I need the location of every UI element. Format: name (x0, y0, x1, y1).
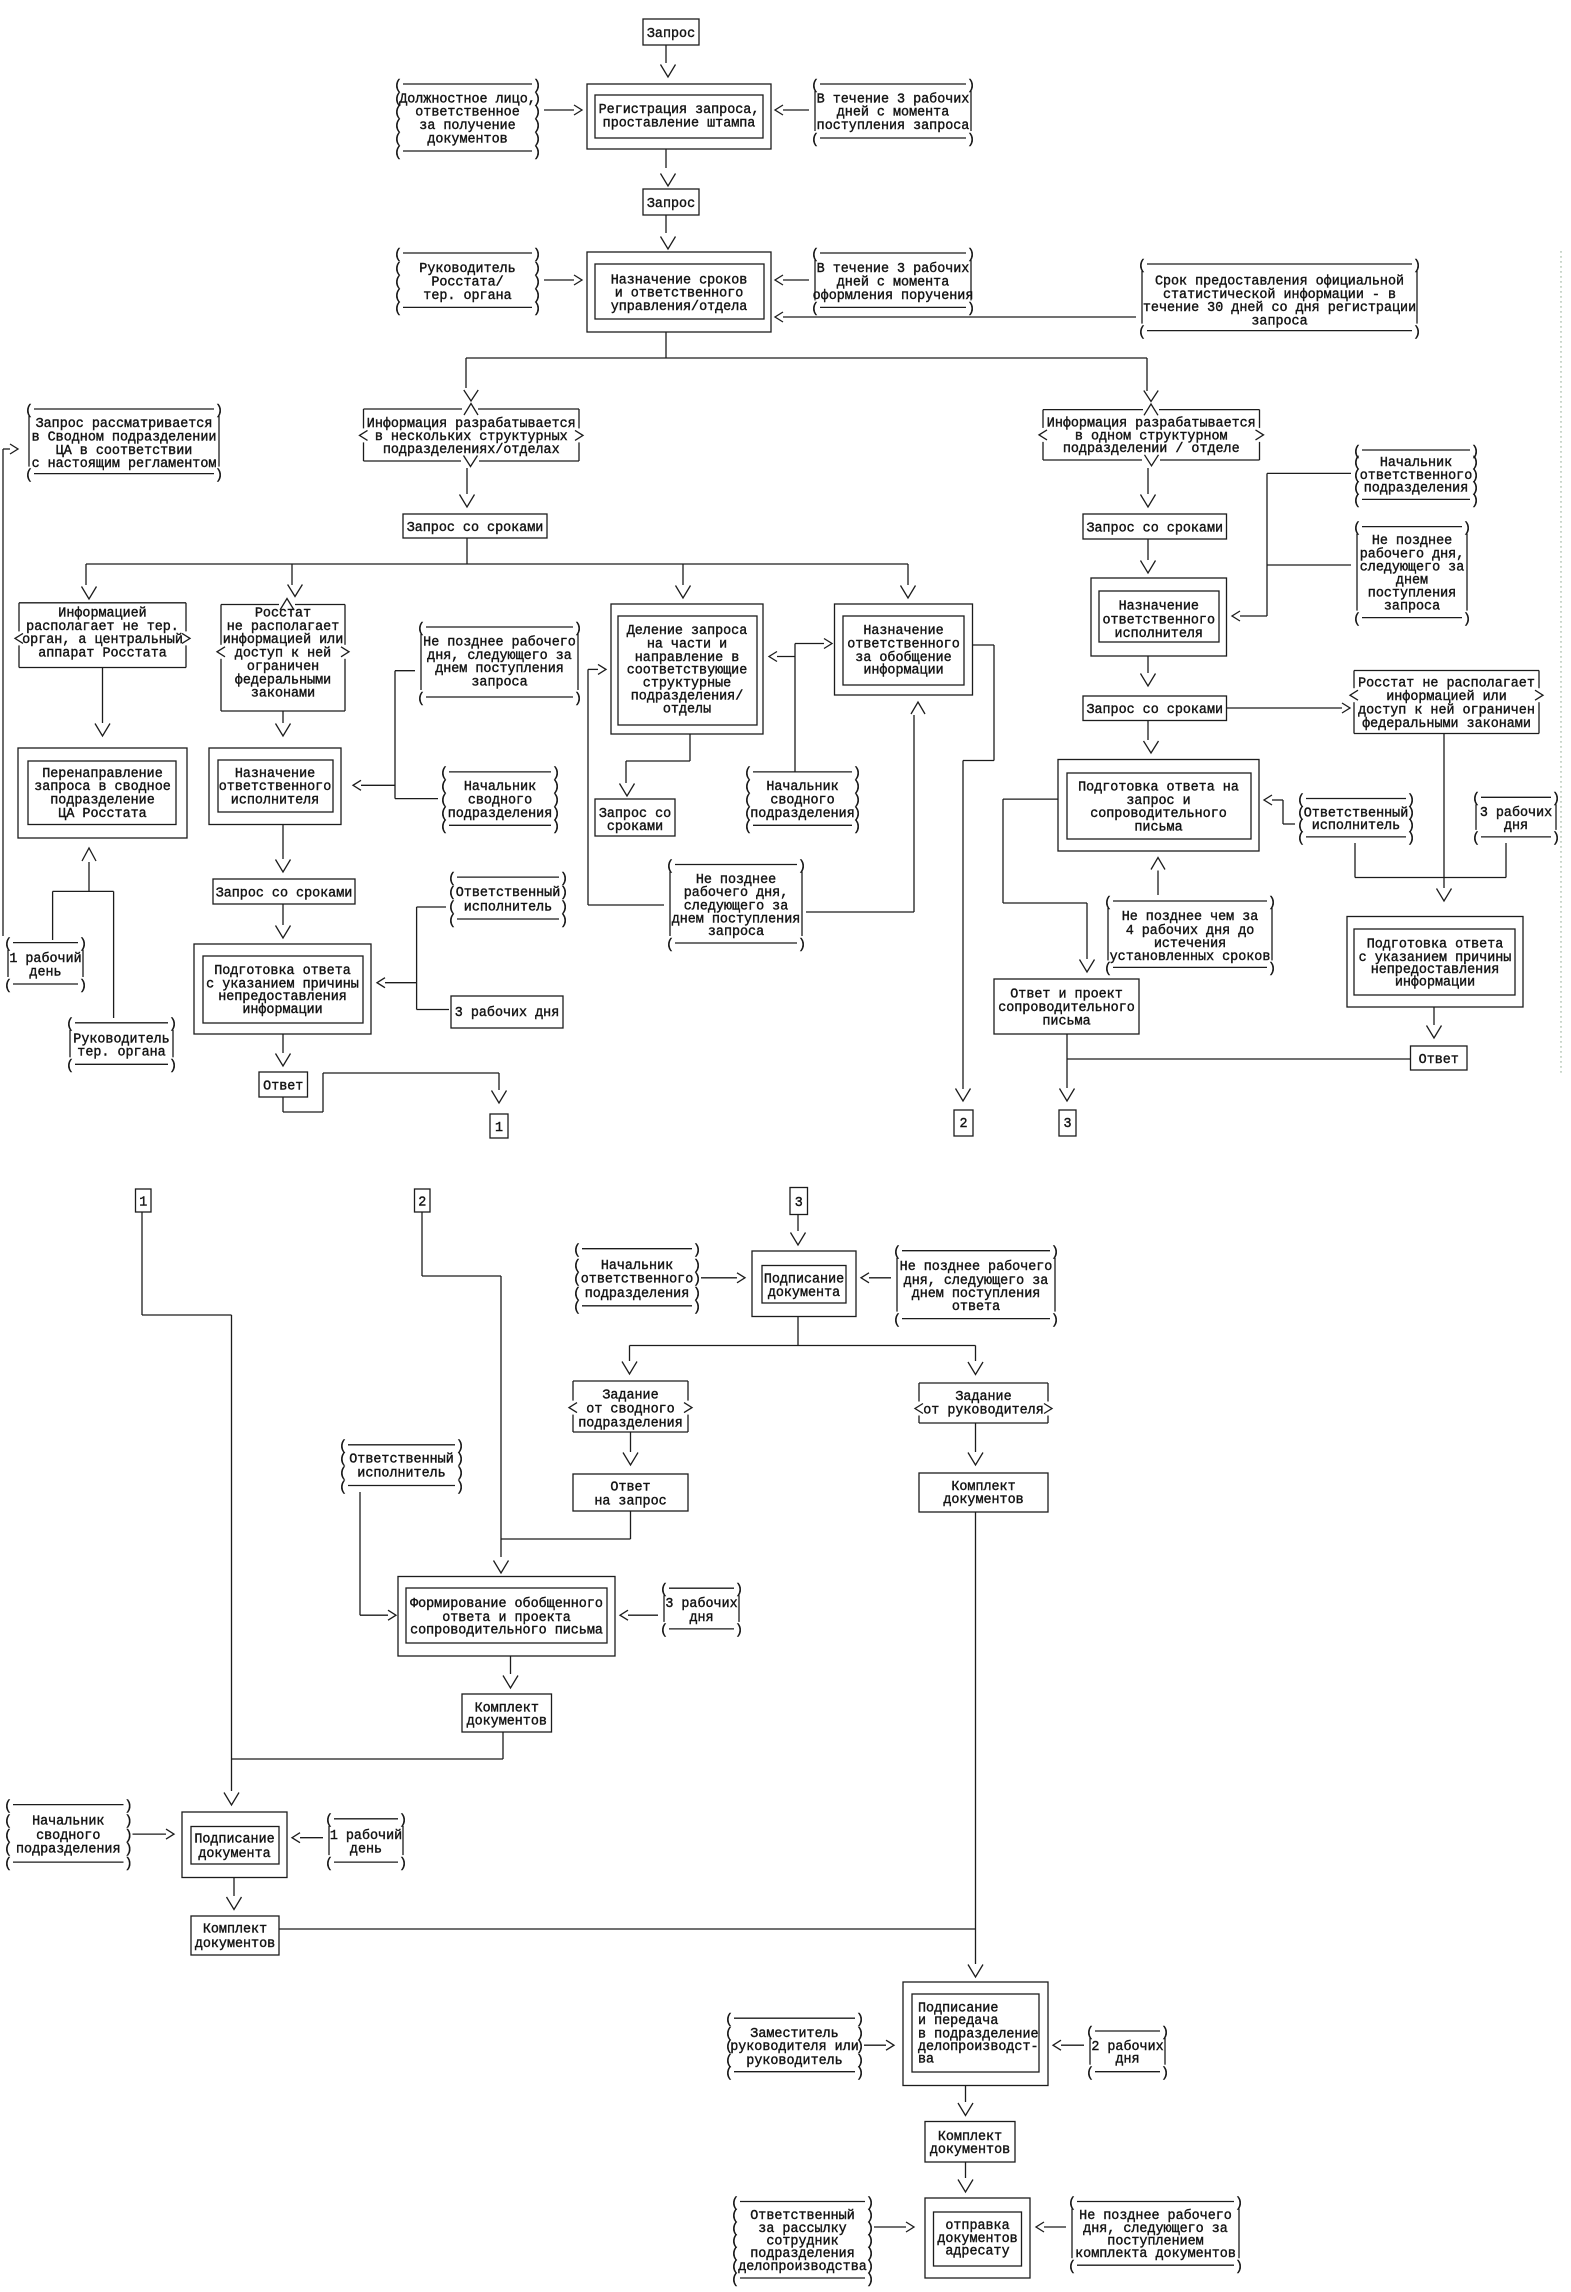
svg-text:исполнитель: исполнитель (464, 901, 552, 916)
svg-text:(: ( (1068, 2260, 1076, 2275)
svg-text:проставление штампа: проставление штампа (603, 117, 756, 132)
svg-text:(: ( (573, 1259, 581, 1274)
wire arrow Информация в одном -> Запрос со сроками (1141, 455, 1159, 507)
svg-text:документов: документов (195, 1937, 275, 1952)
condition Росстат не располагает информацией или доступ к ней ограничен (217, 605, 349, 712)
svg-text:оформления поручения: оформления поручения (813, 289, 974, 304)
svg-text:(: ( (339, 1480, 347, 1495)
node Запрос (second document box) (643, 189, 699, 215)
wire arrow Должностное лицо -> Регистрация (544, 105, 582, 115)
svg-text:): ) (560, 886, 568, 901)
svg-text:дня: дня (689, 1611, 713, 1626)
svg-text:подразделения: подразделения (16, 1843, 120, 1858)
svg-text:управления/отдела: управления/отдела (611, 300, 748, 315)
svg-text:исполнитель: исполнитель (1312, 819, 1400, 834)
connector 2 (off-page, section 1) (954, 1110, 973, 1136)
wire riser to comment Не позднее (center bottom) (588, 904, 664, 906)
svg-text:(: ( (4, 1829, 12, 1844)
svg-text:(: ( (725, 2013, 733, 2028)
node Запрос (top document box) (643, 19, 699, 45)
svg-text:(: ( (1353, 494, 1361, 509)
svg-text:(: ( (573, 1287, 581, 1302)
wire Комплект документов -> Подписание и передача (long riser) (975, 1512, 977, 1964)
wire arrow Запрос со сроками -> Назначение отв. исполнителя (1141, 539, 1156, 573)
svg-text:): ) (735, 1624, 743, 1639)
svg-text:Запрос со сроками: Запрос со сроками (216, 886, 353, 901)
svg-text:(: ( (1086, 2067, 1094, 2082)
comment Не позднее рабочего дня, следующего за поступлением комплекта документов (1068, 2196, 1243, 2275)
svg-text:): ) (456, 1480, 464, 1495)
wire Ответ на запрос -> объединение с 2 (501, 1511, 631, 1539)
svg-text:федеральными законами: федеральными законами (1362, 717, 1531, 732)
wire arrow Запрос со сроками 2 -> Подготовка ответа на запрос (1144, 721, 1159, 754)
svg-text:дня: дня (1115, 2053, 1139, 2068)
svg-text:(: ( (660, 1624, 668, 1639)
wire Назначение за обобщение -> 2 (956, 645, 995, 1101)
process Подготовка ответа с указанием причины непредоставления информации (left) (194, 944, 371, 1034)
svg-text:): ) (1407, 832, 1415, 847)
svg-text:3 рабочих дня: 3 рабочих дня (455, 1006, 559, 1021)
wire arrow Запрос со сроками -> Росстат не располагает (right) (1227, 703, 1351, 713)
wire up arrow into Перенаправление (53, 848, 114, 1018)
svg-text:запроса: запроса (1251, 314, 1307, 329)
svg-text:(: ( (573, 1244, 581, 1259)
wire arrow Срок предоставления -> Назначение сроков (775, 312, 1136, 322)
svg-text:): ) (693, 1287, 701, 1302)
svg-text:): ) (853, 820, 861, 835)
wire arrow out of Информация в одном (X motif) (1144, 391, 1158, 416)
svg-text:(: ( (4, 1799, 12, 1814)
process Назначение ответственного исполнителя (left) (209, 748, 341, 825)
comment 3 рабочих дня (right) (1472, 792, 1560, 847)
svg-text:): ) (856, 2013, 864, 2028)
svg-text:информации: информации (242, 1003, 322, 1018)
svg-text:Запрос: Запрос (647, 197, 695, 212)
svg-text:2: 2 (418, 1195, 426, 1210)
svg-text:ва: ва (918, 2053, 934, 2068)
wire arrow Назначение отв. исполнителя -> Запрос со сроками 2 (1141, 656, 1156, 686)
svg-text:): ) (533, 302, 541, 317)
wire arrow Подписание -> Комплект документов (bottom left) (227, 1878, 242, 1910)
comment Заместитель руководителя или руководитель (725, 2013, 864, 2082)
svg-text:(: ( (1104, 962, 1112, 977)
svg-text:): ) (169, 1059, 177, 1074)
svg-text:подразделения: подразделения (585, 1287, 689, 1302)
comment Не позднее чем за 4 рабочих дня до истечения установленных сроков (1104, 896, 1276, 977)
svg-text:): ) (215, 468, 223, 483)
svg-text:(: ( (666, 938, 674, 953)
svg-text:): ) (1552, 832, 1560, 847)
svg-text:делопроизводст-: делопроизводст- (918, 2040, 1039, 2055)
svg-text:документов: документов (467, 1714, 547, 1729)
svg-text:отделы: отделы (663, 703, 711, 718)
svg-text:(: ( (394, 302, 402, 317)
svg-text:(: ( (1297, 832, 1305, 847)
svg-text:запроса: запроса (708, 925, 764, 940)
svg-text:поступления запроса: поступления запроса (817, 119, 970, 134)
svg-text:документа: документа (198, 1847, 270, 1862)
svg-text:документа: документа (768, 1286, 840, 1301)
svg-text:руководитель: руководитель (746, 2054, 842, 2069)
wire arrow Не позднее -> отправка (1036, 2222, 1066, 2232)
svg-text:): ) (693, 1273, 701, 1288)
svg-text:ответа: ответа (952, 1300, 1000, 1315)
svg-text:Подписание: Подписание (194, 1833, 274, 1848)
process Подписание документа (section 2) (752, 1251, 856, 1317)
wire arrow into Запрос рассматривается (left edge riser) (3, 444, 18, 936)
node Комплект документов (bottom) (925, 2122, 1015, 2163)
wire arrow into Деление запроса (676, 586, 691, 599)
svg-text:Формирование обобщенного: Формирование обобщенного (410, 1597, 603, 1612)
svg-text:): ) (693, 1259, 701, 1274)
wire arrow 3 рабочих дня -> Формирование (620, 1610, 658, 1620)
svg-text:): ) (967, 302, 975, 317)
wire arrow into Информация в нескольких (X motif) (464, 390, 478, 415)
svg-text:законами: законами (251, 687, 315, 702)
wire arrow Комплект документов -> отправка (958, 2162, 973, 2192)
comment Начальник ответственного подразделения (section 2) (573, 1244, 701, 1316)
svg-text:Комплект: Комплект (203, 1923, 267, 1938)
wire arrow Запрос -> Регистрация (661, 45, 676, 77)
wire arrow into Информацией располагает (82, 587, 97, 600)
wire Начальник сводного -> Деление and Назначение за обобщение (dual arrows) (769, 639, 832, 773)
svg-text:Запрос со сроками: Запрос со сроками (407, 521, 544, 536)
svg-text:(: ( (339, 1467, 347, 1482)
svg-text:): ) (533, 248, 541, 263)
wire arrow Ответственный за рассылку -> отправка (874, 2222, 914, 2232)
svg-text:Ответственный: Ответственный (456, 886, 560, 901)
condition Информация разрабатывается в нескольких структурных подразделениях/отделах (360, 409, 584, 461)
svg-text:Не позднее чем за: Не позднее чем за (1122, 910, 1259, 925)
process Подписание документа (bottom left) (182, 1812, 287, 1878)
svg-text:3: 3 (1063, 1117, 1071, 1132)
condition Росстат не располагает информацией или доступ к ней ограничен федеральными законами (right) (1350, 671, 1543, 734)
wire arrow Запрос со сроками -> Подготовка (left) (276, 904, 291, 938)
node Комплект документов (right) (919, 1473, 1048, 1512)
svg-text:письма: письма (1134, 820, 1182, 835)
svg-text:от сводного: от сводного (586, 1402, 674, 1417)
wire branch Запрос со сроками -> четыре направления (86, 538, 908, 585)
svg-text:): ) (1235, 2260, 1243, 2275)
svg-text:): ) (693, 1301, 701, 1316)
node Комплект документов (center) (462, 1694, 552, 1732)
svg-text:(: ( (811, 133, 819, 148)
wire branch Подписание -> Задание от сводного / от руководителя (622, 1317, 983, 1375)
node Запрос со сроками (right, second) (1083, 696, 1227, 721)
svg-text:исполнителя: исполнителя (1115, 627, 1203, 642)
process Перенаправление запроса в сводное подразделение ЦА Росстата (18, 748, 187, 838)
svg-text:от руководителя: от руководителя (923, 1403, 1044, 1418)
svg-text:Не позднее рабочего: Не позднее рабочего (900, 1260, 1053, 1275)
svg-text:): ) (693, 1244, 701, 1259)
svg-text:): ) (1161, 2067, 1169, 2082)
node Задание от сводного подразделения (569, 1381, 692, 1432)
svg-text:запроса: запроса (1384, 600, 1440, 615)
wire arrow Задание от руководителя -> Комплект документов (968, 1423, 983, 1465)
node Запрос со сроками (center) (403, 514, 547, 538)
svg-text:письма: письма (1042, 1015, 1090, 1030)
svg-text:дня: дня (1504, 819, 1528, 834)
wire arrow Заместитель -> Подписание и передача (864, 2040, 894, 2050)
comment Ответственный за рассылку сотрудник подразделения делопроизводства (731, 2196, 874, 2288)
svg-text:сроками: сроками (607, 820, 663, 835)
svg-text:ЦА Росстата: ЦА Росстата (58, 807, 146, 822)
process Регистрация запроса, проставление штампа (587, 84, 771, 149)
svg-text:информации: информации (863, 664, 943, 679)
svg-text:1 рабочий: 1 рабочий (330, 1829, 402, 1844)
svg-text:(: ( (417, 692, 425, 707)
node Запрос со сроками (right) (1083, 514, 1227, 539)
svg-text:на запрос: на запрос (594, 1495, 666, 1510)
wire Подготовка ответа на запрос -> Ответ и проект (1003, 799, 1095, 972)
svg-text:(: ( (731, 2273, 739, 2288)
svg-text:(: ( (440, 820, 448, 835)
svg-text:): ) (125, 1815, 133, 1830)
comment Не позднее рабочего дня, следующего за днем поступления ответа (893, 1246, 1059, 1329)
svg-text:сводного: сводного (36, 1829, 100, 1844)
svg-text:): ) (560, 914, 568, 929)
wire Деление -> Запрос со сроками (small) (620, 734, 691, 796)
svg-text:(: ( (4, 979, 12, 994)
svg-text:): ) (967, 133, 975, 148)
process Подготовка ответа на запрос и сопроводительного письма (1058, 760, 1259, 852)
svg-text:подразделениях/отделах: подразделениях/отделах (383, 443, 560, 458)
wire branch Назначение сроков -> два варианта (466, 332, 1147, 391)
process Формирование обобщенного ответа и проекта сопроводительного письма (398, 1577, 615, 1657)
wire arrow 2 рабочих дня -> Подписание и передача (1053, 2040, 1084, 2050)
node Ответ (right) (1411, 1046, 1468, 1070)
svg-text:): ) (399, 1857, 407, 1872)
svg-text:делопроизводства: делопроизводства (738, 2260, 867, 2275)
svg-text:установленных сроков: установленных сроков (1110, 950, 1271, 965)
svg-text:): ) (456, 1467, 464, 1482)
svg-text:информации: информации (1395, 976, 1475, 991)
svg-text:): ) (560, 872, 568, 887)
comment 3 рабочих дня (section 2) (660, 1583, 743, 1639)
comment Начальник сводного подразделения (right of center) (744, 767, 861, 835)
wire arrow Назначение отв. исполнителя -> Запрос со сроками (left) (276, 825, 291, 873)
svg-text:сопроводительного письма: сопроводительного письма (410, 1624, 603, 1639)
node Ответ и проект сопроводительного письма (994, 979, 1139, 1034)
svg-text:): ) (533, 146, 541, 161)
svg-text:Запрос со сроками: Запрос со сроками (1086, 703, 1223, 718)
svg-text:исполнителя: исполнителя (231, 794, 319, 809)
svg-text:): ) (125, 1843, 133, 1858)
svg-text:Назначение: Назначение (1119, 599, 1199, 614)
wire arrow Подготовка -> Ответ (right) (1427, 1007, 1442, 1038)
svg-text:(: ( (394, 248, 402, 263)
wire Ответственный исполнитель -> Подготовка ответа на запрос (1264, 795, 1295, 824)
wire comments -> Назначение отв. исполнителя (right) (1232, 473, 1351, 621)
comment Начальник ответственного подразделения (right) (1353, 445, 1479, 509)
svg-text:): ) (574, 692, 582, 707)
svg-text:(: ( (1138, 325, 1146, 340)
wire arrow Начальник -> Подписание документа (701, 1273, 745, 1283)
svg-text:(: ( (339, 1452, 347, 1467)
process Подписание и передача в подразделение делопроизводства (903, 1982, 1048, 2086)
svg-text:): ) (1413, 325, 1421, 340)
svg-text:3 рабочих: 3 рабочих (665, 1597, 737, 1612)
svg-text:(: ( (1353, 612, 1361, 627)
svg-text:адресату: адресату (945, 2245, 1009, 2260)
comment Ответственный исполнитель (section 2) (339, 1440, 464, 1496)
wire Не позднее / Начальник сводного manifold (353, 671, 438, 799)
svg-text:комплекта документов: комплекта документов (1075, 2247, 1236, 2262)
node Ответ (left) (259, 1072, 308, 1097)
condition Информация разрабатывается в одном структурном подразделении/отделе (1039, 410, 1264, 460)
wire arrow Росстат -> Подготовка ответа с указанием причины (right) (1437, 734, 1452, 902)
svg-text:подразделения: подразделения (750, 807, 854, 822)
svg-text:): ) (125, 1829, 133, 1844)
svg-text:ответственного: ответственного (581, 1273, 694, 1288)
svg-text:(: ( (744, 820, 752, 835)
svg-text:аппарат Росстата: аппарат Росстата (38, 647, 167, 662)
svg-text:): ) (125, 1799, 133, 1814)
comment Руководитель Росстата / тер. органа (394, 248, 541, 317)
wire arrow Регистрация -> Запрос (661, 149, 676, 186)
svg-text:документов: документов (943, 1493, 1023, 1508)
svg-text:(: ( (893, 1313, 901, 1328)
svg-text:Начальник: Начальник (32, 1815, 104, 1830)
svg-text:подразделении / отделе: подразделении / отделе (1063, 442, 1240, 457)
wire Ответ и проект -> 3 and -> Ответ (1060, 1034, 1411, 1101)
svg-text:(: ( (725, 2067, 733, 2082)
svg-text:): ) (125, 1857, 133, 1872)
wire arrow Запрос -> Назначение сроков (661, 215, 676, 249)
wire comment -> Назначение за обобщение (up arrow) (806, 702, 925, 912)
svg-text:(: ( (25, 468, 33, 483)
wire arrow Задание -> Ответ на запрос (623, 1432, 638, 1465)
connector 1 (off-page, section 1) (490, 1114, 508, 1138)
svg-text:исполнитель: исполнитель (357, 1467, 445, 1482)
process Назначение ответственного за обобщение информации (835, 604, 973, 695)
comment Срок предоставления официальной статистической информации (1138, 259, 1421, 341)
comment Начальник сводного подразделения (bottom) (4, 1799, 133, 1872)
comment Не позднее рабочего дня, следующего за днем поступления запроса (right) (1353, 521, 1471, 627)
wire arrow Подписание и передача -> Комплект документов (958, 2086, 973, 2116)
svg-text:с настоящим регламентом: с настоящим регламентом (32, 457, 217, 472)
node Комплект документов (bottom left) (191, 1916, 279, 1955)
svg-text:): ) (456, 1452, 464, 1467)
process Назначение ответственного исполнителя (right) (1091, 578, 1227, 656)
comment Ответственный исполнитель (left) (448, 872, 568, 929)
svg-text:день: день (350, 1843, 382, 1858)
svg-text:документов: документов (427, 133, 507, 148)
wire arrow Подготовка -> Ответ (left) (276, 1034, 291, 1066)
svg-text:(: ( (394, 146, 402, 161)
process Деление запроса на части и направление в соответствующие структурные подразделения/отделы (611, 604, 763, 734)
svg-text:руководителя или: руководителя или (730, 2040, 859, 2055)
wire arrow Руководитель -> Назначение сроков (544, 275, 582, 285)
svg-text:): ) (1051, 1313, 1059, 1328)
svg-text:Задание: Задание (602, 1389, 658, 1404)
page margin dotted line (1560, 251, 1562, 1076)
comment 1 рабочий день (left) (4, 937, 87, 993)
comment Ответственный исполнитель (right) (1297, 793, 1415, 846)
wire arrow Не позднее -> Подписание документа (861, 1273, 891, 1283)
svg-text:(: ( (811, 302, 819, 317)
wire 2 -> Формирование (422, 1212, 509, 1573)
svg-text:Запрос: Запрос (647, 27, 695, 42)
svg-text:подразделения: подразделения (578, 1417, 682, 1432)
wire Ответственный исполнитель / 3 рабочих дня -> Подготовка (left) (377, 907, 449, 1010)
process Назначение сроков и ответственного управления/отдела (587, 252, 771, 332)
svg-text:3: 3 (795, 1196, 803, 1211)
svg-text:подразделения: подразделения (448, 807, 552, 822)
wire Ответ -> 1 (staircase) (283, 1073, 507, 1112)
svg-text:запроса: запроса (471, 676, 527, 691)
node Запрос со сроками (small, under Деление) (595, 799, 675, 836)
wire arrow В течение 3 рабочих дней -> Регистрация (775, 105, 809, 115)
svg-text:): ) (798, 938, 806, 953)
comment Должностное лицо, ответственное за получение документов (394, 79, 541, 161)
svg-text:Ответ: Ответ (1419, 1053, 1459, 1068)
wire 1 -> Подписание документа (left) (142, 1212, 239, 1805)
comment Не позднее рабочего дня, следующего за днем поступления запроса (слева от Деления) (417, 622, 582, 707)
wire Комплект документов -> Подписание и передача (long) (279, 1928, 976, 1930)
connector 2 (section 2 entry) (415, 1189, 431, 1212)
svg-text:(: ( (325, 1857, 333, 1872)
svg-text:(: ( (1472, 832, 1480, 847)
svg-text:(: ( (4, 1815, 12, 1830)
svg-text:(: ( (4, 1857, 12, 1872)
connector 3 (off-page, section 1) (1059, 1110, 1076, 1136)
svg-text:(: ( (448, 914, 456, 929)
connector 3 (section 2 entry) (790, 1188, 808, 1215)
svg-text:тер. органа: тер. органа (423, 289, 511, 304)
svg-text:2: 2 (959, 1117, 967, 1132)
wire arrow into Назначение за обобщение (901, 586, 916, 599)
svg-text:): ) (79, 979, 87, 994)
wire arrow Росстат не располагает -> Назначение отв. исполнителя (left) (276, 711, 291, 736)
wire comment -> Подготовка ответа на запрос (up arrow) (1151, 858, 1165, 896)
svg-text:Ответственный: Ответственный (349, 1452, 453, 1467)
wire arrow into Росстат не располагает (X motif) (280, 585, 302, 611)
svg-text:документов: документов (930, 2143, 1010, 2158)
wire arrow Начальник сводного -> Подписание документа (left) (133, 1829, 175, 1839)
wire arrow 3 -> Подписание документа (791, 1215, 806, 1246)
wire arrow Формирование -> Комплект документов (503, 1656, 518, 1688)
node Ответ на запрос (573, 1474, 688, 1511)
svg-text:): ) (1463, 612, 1471, 627)
comment Запрос рассматривается в Сводном подразделении ЦА (25, 404, 223, 484)
comment Начальник сводного подразделения (center) (440, 767, 560, 835)
node Запрос со сроками (left) (213, 879, 355, 904)
svg-text:(: ( (448, 872, 456, 887)
svg-text:): ) (1268, 962, 1276, 977)
comment В течение 3 рабочих дней с момента поступления запроса (811, 79, 975, 148)
wire arrow Информацией располагает -> Перенаправление (95, 668, 110, 737)
node 3 рабочих дня (left, rectangular) (451, 996, 563, 1028)
wire arrow into Деление запроса from left riser (588, 664, 606, 905)
svg-text:Ответ: Ответ (263, 1079, 303, 1094)
svg-text:): ) (1471, 494, 1479, 509)
svg-text:Запрос со сроками: Запрос со сроками (1086, 521, 1223, 536)
svg-text:Ответ: Ответ (610, 1480, 650, 1495)
comment 2 рабочих дня (1086, 2026, 1169, 2082)
svg-text:(: ( (66, 1059, 74, 1074)
connector 1 (section 2 entry) (136, 1189, 152, 1212)
svg-text:Начальник: Начальник (601, 1259, 673, 1274)
svg-text:(: ( (4, 1843, 12, 1858)
wire arrow В течение 3 рабочих дней -> Назначение сроков (775, 275, 809, 285)
svg-text:): ) (552, 820, 560, 835)
comment Руководитель тер. органа (66, 1018, 177, 1075)
svg-text:1: 1 (495, 1121, 503, 1136)
wire arrow Ответственный исполнитель -> Формирование (360, 1492, 396, 1620)
process Подготовка ответа с указанием причины непредоставления информации (right) (1347, 917, 1523, 1008)
comment 1 рабочий день (bottom) (325, 1814, 407, 1872)
